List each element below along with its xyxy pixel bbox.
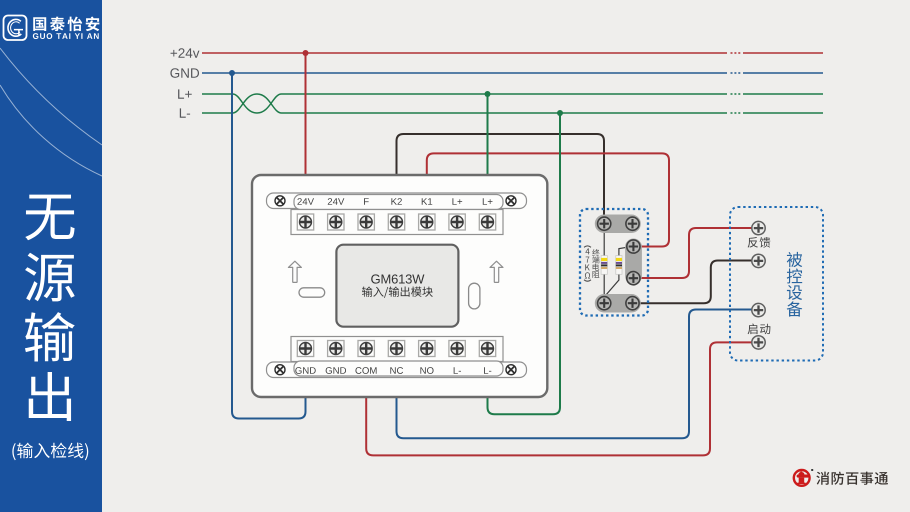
module corner screw (top-right) [506,196,516,206]
terminal screw L+ (top row) [479,214,495,230]
junction node on L+ bus [485,91,491,97]
resistor lead: R2 bottom to bottom-left screw [606,274,619,295]
terminal resistor assembly: bottom terminal block [595,294,641,313]
wire: terminal-resistor to controlled-device feedback terminal (black) [633,261,759,304]
controlled device feedback terminal + [752,221,765,234]
controlled device dashed enclosure [730,207,823,361]
terminal resistor screw right-top [627,240,640,253]
terminal label F (pin 3) [364,198,369,205]
value label (4.7K ohm), vertical [584,246,591,247]
terminal resistor screw bottom-left [598,297,611,310]
fire-baishitong logo hydrant figure [800,471,802,473]
L+ signal bus (twisted pair) [202,94,823,113]
wire: module COM terminal to controlled-device start terminal [366,342,758,455]
controlled device feedback terminal - [752,254,765,267]
junction node on +24V bus [303,50,309,56]
sidebar decorative arc 2 [0,85,102,176]
terminal label L+ (pin 6) [452,198,462,205]
terminal resistor assembly: right terminal block [625,239,642,285]
terminal resistor screw bottom-right [626,297,639,310]
wire: GND bus to module GND terminal [232,73,306,419]
terminal label 24V (pin 1) [297,198,314,205]
terminal resistor screw right-bottom [627,272,640,285]
sidebar decorative arc 1 [0,48,102,145]
module top screw row box [291,210,503,235]
label start [748,324,771,335]
terminal resistor assembly: top terminal block [595,215,641,234]
module orientation arrow (left) [288,261,301,282]
module U1 GM613W input/output module body [252,175,547,397]
module bottom terminal strip [267,362,527,378]
resistor lead: R2 top to right-top screw [619,246,634,255]
company logo G mark [8,19,21,36]
module orientation arrow (right) [490,261,503,282]
controlled device start terminal - [752,336,765,349]
terminal resistor screw top-left [598,217,611,230]
terminal label K2 (pin 4) [391,198,401,205]
name label terminal-resistor, vertical [592,249,599,256]
module type text GM613W [371,274,424,283]
terminal screw L- (bottom row) [449,341,465,357]
terminal resistor dashed enclosure [580,209,648,316]
resistor lead: top screw to bottom screw through R1 [603,224,605,304]
resistor R1 4.7k (end-of-line) [601,256,607,275]
bus label +24v [171,48,200,57]
module bottom screw row box [291,337,503,362]
module center label plate [336,245,458,327]
+24V power bus [202,52,823,54]
wire: L+ bus to module L+ terminal [487,94,489,175]
company logo frame [4,16,27,41]
resistor R2 4.7k (end-of-line) [616,256,622,275]
terminal resistor screw top-right [626,217,639,230]
sidebar panel [0,0,102,512]
module mounting slot (right) [469,283,480,309]
terminal screw GND (bottom row) [297,341,313,357]
module type text input/output module [362,286,433,297]
terminal screw 24V (top row) [297,214,313,230]
terminal label GND (pin 8) [295,367,315,374]
terminal label NO (pin 12) [420,367,433,374]
terminal label COM (pin 10) [355,367,376,374]
GND bus [202,72,823,74]
logo text xiaofang-baishitong [816,472,888,485]
terminal label L+ (pin 7) [483,198,493,205]
module corner screw (bottom-left) [275,365,285,375]
module corner screw (bottom-right) [506,365,516,375]
terminal label NC (pin 11) [390,367,403,374]
terminal label K1 (pin 5) [422,198,432,205]
terminal screw K2 (top row) [388,214,404,230]
wire: terminal-resistor to controlled-device feedback terminal (red) [633,228,758,278]
controlled device start terminal + [752,303,765,316]
label feedback [748,237,771,248]
terminal screw NO (bottom row) [419,341,435,357]
module top terminal strip [267,193,527,209]
module corner screw (top-left) [275,196,285,206]
terminal label GND (pin 9) [326,367,346,374]
company name GUO TAI YI AN [33,33,99,39]
company name guotaiyian (CJK) [33,17,99,32]
module mounting slot (left) [299,288,325,297]
terminal label L- (pin 14) [484,367,491,374]
wire: module NC terminal to controlled-device start terminal [397,310,759,439]
terminal screw L- (bottom row) [479,341,495,357]
terminal label L- (pin 13) [454,367,461,374]
bus label L- [180,108,190,117]
terminal screw NC (bottom row) [388,341,404,357]
wire: module K1 terminal to terminal-resistor screw [427,153,669,246]
wire: module K2 terminal to terminal-resistor screw [397,134,605,224]
junction node on GND bus [229,70,235,76]
page title passive output (vertical) [25,195,74,241]
terminal screw COM (bottom row) [358,341,374,357]
fire-baishitong logo ring [794,470,810,486]
registered trademark dot [811,469,813,471]
terminal screw 24V (top row) [328,214,344,230]
bus label GND [170,68,199,78]
terminal screw K1 (top row) [419,214,435,230]
terminal screw L+ (top row) [449,214,465,230]
terminal screw F (top row) [358,214,374,230]
wire: +24V bus to module 24V terminal [305,53,307,175]
bus label L+ [178,89,192,98]
terminal label 24V (pin 2) [328,198,345,205]
junction node on L- bus [557,110,563,116]
page subtitle input supervised line [12,443,88,461]
terminal screw GND (bottom row) [328,341,344,357]
L- signal bus (twisted pair) [202,94,823,113]
wire: L- bus to module L- terminal [488,113,561,414]
controlled device name, vertical [787,252,802,267]
